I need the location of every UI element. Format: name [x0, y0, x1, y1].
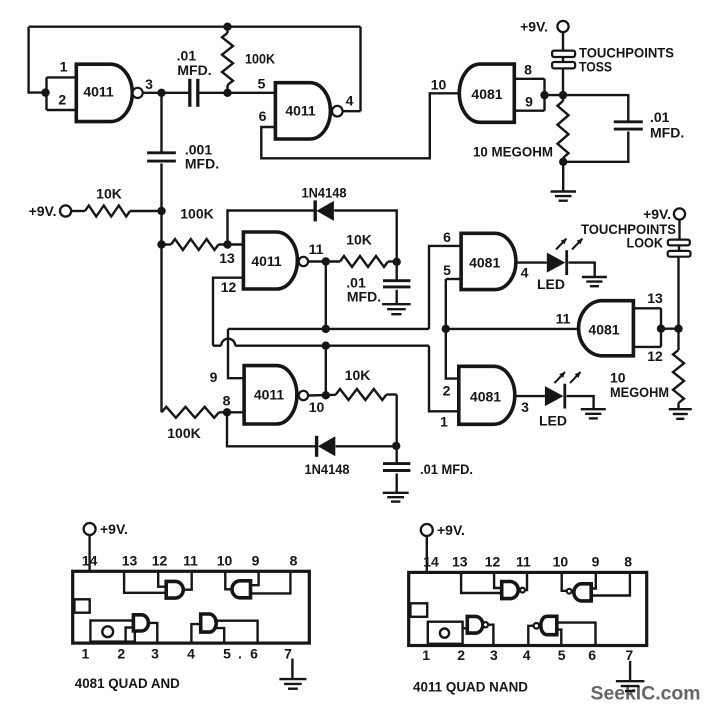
ground LED2	[581, 409, 606, 418]
watermark SeekIC.com	[591, 683, 701, 705]
node R6/D2 junction pin 8	[223, 408, 231, 416]
svg-text:1N4148: 1N4148	[302, 185, 347, 201]
svg-text:1: 1	[422, 647, 430, 663]
4011 notch marker	[410, 603, 427, 617]
wire C1 to U1b pin 5	[198, 92, 275, 94]
svg-text:12: 12	[221, 279, 237, 295]
ground toss node	[551, 162, 577, 201]
svg-text:+9V.: +9V.	[643, 206, 671, 222]
wire +9V to pin 14 4011	[426, 536, 428, 572]
ground C4	[382, 304, 411, 314]
node W1 junction at pin 11 drop	[322, 325, 330, 333]
wire U1c pin 11 output	[308, 260, 340, 262]
node W3 junction at pin 10 riser	[322, 342, 330, 350]
wire main timing rail down left side	[160, 164, 162, 413]
svg-text:5: 5	[443, 262, 451, 278]
AND gate U2a 4081 pins 8,9 out 10 (mirrored)	[459, 62, 533, 123]
pin numbers bottom 4081 IC	[82, 645, 293, 661]
svg-text:8: 8	[290, 553, 298, 569]
node C1/R2 junction	[223, 89, 231, 97]
wire +9V to pin 14 4081	[88, 535, 90, 571]
wire U2a pins 8,9 bracket to touch node	[514, 79, 563, 111]
wire U1a pin 3 output to C1	[143, 92, 190, 94]
svg-text:+9V.: +9V.	[437, 522, 465, 538]
svg-text:10K: 10K	[345, 367, 371, 383]
wire U1a input bracket pins 1-2	[47, 77, 77, 110]
svg-text:14: 14	[423, 554, 439, 570]
wire U1c pin 12 from latch wire W3	[213, 278, 243, 346]
svg-text:4011: 4011	[254, 387, 285, 403]
resistor R8 10 MEGOHM look	[610, 329, 684, 409]
resistor R7 10K from pin 10	[336, 367, 397, 400]
resistor R5 10 MEGOHM toss	[473, 95, 569, 162]
svg-text:100K: 100K	[167, 425, 200, 441]
svg-text:3: 3	[151, 645, 159, 661]
power terminal +9V look	[643, 206, 685, 222]
svg-text:4011: 4011	[251, 253, 282, 269]
wire look plates down to bracket node	[677, 257, 679, 329]
wire W3 U1d pin10 node to U1c pin12 and U2f pin 1 (net look-out)	[213, 339, 459, 412]
svg-text:4: 4	[521, 265, 529, 281]
svg-text:11: 11	[516, 554, 531, 570]
svg-text:.01: .01	[650, 109, 670, 125]
wire LED2 cathode to ground	[567, 396, 594, 409]
svg-text:1: 1	[60, 59, 68, 75]
diode D2 1N4148 from pin8 node to R7/C5 node	[227, 412, 397, 477]
capacitor C1 .01 MFD coupling	[177, 48, 212, 107]
ground R8	[669, 409, 692, 419]
svg-text:9: 9	[525, 94, 533, 110]
svg-text:8: 8	[524, 62, 532, 78]
4011 internal gate D bottom-right mirrored NAND	[528, 616, 595, 645]
svg-text:2: 2	[117, 645, 125, 661]
svg-text:4081: 4081	[588, 322, 619, 338]
resistor R3 100K to U1c pin 13	[162, 206, 244, 251]
NAND gate U1d 4011 pins 9,8 out 10	[210, 366, 325, 424]
IC body 4081	[73, 571, 310, 643]
svg-text:10: 10	[431, 77, 447, 93]
node bracket tap junctions	[540, 91, 567, 99]
svg-text:13: 13	[219, 250, 235, 266]
resistor R2 100K vertical feedback	[222, 27, 275, 93]
svg-text:SeekIC.com: SeekIC.com	[591, 683, 701, 705]
svg-text:4011: 4011	[83, 84, 114, 100]
svg-text:+9V.: +9V.	[100, 521, 128, 537]
NAND gate U1c 4011 pins 13,12 out 11	[219, 232, 323, 295]
svg-text:4: 4	[346, 93, 354, 109]
wire U2b pin 4 output to LED1	[516, 261, 547, 263]
svg-text:2: 2	[58, 92, 66, 108]
label 4081 QUAD AND	[75, 675, 180, 691]
svg-text:1: 1	[82, 645, 90, 661]
svg-text:LED: LED	[539, 413, 567, 429]
svg-text:9: 9	[252, 553, 260, 569]
svg-text:1: 1	[440, 413, 448, 429]
ground pin 7 4011	[616, 661, 645, 691]
wire +9V to look plates	[678, 220, 680, 240]
node pin3 junction	[157, 89, 165, 97]
svg-text:MFD.: MFD.	[650, 125, 684, 141]
resistor R4 10K from pin 11	[340, 232, 397, 268]
svg-text:4011 QUAD NAND: 4011 QUAD NAND	[413, 679, 528, 695]
node D2/C5 junction	[392, 442, 400, 450]
svg-text:9: 9	[592, 554, 600, 570]
svg-text:14: 14	[82, 553, 98, 569]
svg-text:6: 6	[259, 108, 267, 124]
node R3/D1 junction pin 13	[223, 240, 231, 248]
ground LED1	[582, 277, 607, 286]
svg-text:3: 3	[521, 399, 529, 415]
svg-text:10: 10	[217, 553, 233, 569]
4081 internal gate D bottom-right	[191, 614, 257, 643]
ground pin 7 4081	[279, 659, 306, 689]
svg-text:4081: 4081	[469, 254, 500, 270]
node 100K junction on rail	[157, 240, 165, 248]
node W2 junction pins 5/2 riser	[442, 325, 450, 333]
svg-text:11: 11	[183, 553, 198, 569]
ground C5	[383, 493, 409, 502]
svg-text:10: 10	[309, 399, 325, 415]
power terminal +9V toss	[520, 19, 569, 35]
diode D1 1N4148 from pin13 node to R4/C4 node	[228, 185, 397, 262]
svg-text:4: 4	[523, 647, 531, 663]
svg-text:MFD.: MFD.	[347, 289, 381, 305]
4011 internal gate A top-left NAND	[461, 572, 527, 598]
svg-text:9: 9	[210, 369, 218, 385]
svg-text:10: 10	[553, 554, 569, 570]
IC body 4011	[409, 572, 647, 645]
svg-text:3: 3	[490, 647, 498, 663]
4081 internal gate B top-right mirrored	[225, 571, 290, 598]
node R2 top junction on feedback wire	[223, 23, 231, 31]
wire W1 U1c pin11 node to U2b pin 6 (net toss-out)	[228, 246, 461, 378]
svg-text:12: 12	[485, 554, 501, 570]
svg-text:1N4148: 1N4148	[305, 461, 350, 477]
node pin 10 output junction	[322, 391, 330, 399]
svg-text:MFD.: MFD.	[185, 156, 219, 172]
node R5 bottom junction	[559, 158, 567, 166]
node R4/D1/C4 junction	[393, 258, 401, 266]
svg-text:2: 2	[457, 647, 465, 663]
wire touch plates down to node	[562, 68, 564, 95]
wire R7 down to D2/C5 node	[396, 395, 398, 464]
svg-text:MEGOHM: MEGOHM	[610, 384, 669, 400]
4081 internal gate C bottom-left with pin1 box	[90, 615, 157, 643]
svg-text:12: 12	[647, 348, 663, 364]
svg-text:6: 6	[588, 647, 596, 663]
svg-text:10K: 10K	[96, 186, 122, 202]
svg-text:4011: 4011	[285, 102, 316, 118]
wire W2 U2e output 11 to U2b pin5 / U2f pin2	[446, 279, 578, 379]
svg-text:LOOK: LOOK	[627, 235, 664, 251]
LED LED2 look indicator	[539, 372, 581, 429]
svg-text:7: 7	[625, 647, 633, 663]
capacitor C5 .01 MFD one-shot 2	[383, 461, 473, 492]
4081 notch marker	[74, 599, 89, 612]
wire feedback loop top from U2b output to U1a input	[29, 27, 361, 112]
svg-text:8: 8	[223, 393, 231, 409]
node R1 junction on rail	[157, 207, 165, 215]
svg-text:+9V.: +9V.	[520, 19, 548, 35]
svg-text:4081 QUAD AND: 4081 QUAD AND	[75, 675, 180, 691]
AND gate U2b 4081 pins 6,5 out 4	[443, 229, 529, 290]
node look bracket junctions	[657, 325, 683, 333]
svg-text:11: 11	[309, 241, 324, 257]
svg-text:100K: 100K	[245, 51, 275, 67]
svg-text:6: 6	[443, 229, 451, 245]
NAND gate U1a 4011 pins 1,2 out 3	[58, 59, 153, 122]
pin numbers top 4011 IC	[423, 554, 632, 570]
svg-text:10K: 10K	[346, 232, 372, 248]
svg-text:+9V.: +9V.	[29, 203, 57, 219]
svg-text:5: 5	[223, 645, 231, 661]
svg-text:2: 2	[443, 383, 451, 399]
svg-text:.: .	[238, 645, 242, 661]
node junction at U1a input bracket	[41, 88, 49, 96]
svg-text:4: 4	[187, 645, 195, 661]
svg-text:3: 3	[145, 76, 153, 92]
wire +9V to touch plate	[562, 32, 564, 50]
svg-text:6: 6	[250, 645, 258, 661]
svg-text:100K: 100K	[180, 206, 213, 222]
NAND gate U1b 4011 pins 5,6 out 4	[258, 75, 354, 139]
touchpoints LOOK plates	[581, 221, 691, 257]
4081 internal gate A top-left	[124, 571, 192, 598]
AND gate U2f 4081 pins 2,1 out 3	[440, 366, 529, 429]
svg-text:8: 8	[624, 554, 632, 570]
svg-text:.01 MFD.: .01 MFD.	[420, 461, 473, 477]
svg-text:MFD.: MFD.	[177, 62, 211, 78]
AND gate U2e 4081 pins 13,12 out 11 (mirrored)	[579, 290, 663, 364]
pin numbers top 4081 IC	[82, 553, 298, 569]
pin numbers bottom 4011 IC	[422, 647, 633, 663]
capacitor C4 .01 MFD one-shot	[346, 262, 410, 305]
power terminal +9V 4011 IC	[421, 522, 465, 538]
wire U1b pin 6 from U2a output 10	[261, 77, 459, 159]
capacitor C2 .001 MFD to timing node	[147, 93, 219, 172]
svg-text:13: 13	[452, 554, 468, 570]
svg-text:11: 11	[556, 311, 571, 327]
svg-text:LED: LED	[537, 276, 565, 292]
power terminal +9V left	[29, 203, 72, 219]
resistor R1 10K from +9V	[71, 186, 161, 217]
svg-text:13: 13	[647, 290, 663, 306]
svg-text:5: 5	[558, 647, 566, 663]
label 4011 QUAD NAND	[413, 679, 528, 695]
wire U2f pin 3 output to LED2	[515, 395, 545, 397]
svg-text:5: 5	[258, 75, 266, 91]
svg-text:4081: 4081	[471, 86, 502, 102]
svg-text:4081: 4081	[470, 389, 501, 405]
capacitor C3 .01 MFD toss	[563, 95, 684, 162]
touchpoints TOSS plates	[552, 45, 674, 75]
node pin 11 output junction	[322, 257, 330, 265]
svg-text:13: 13	[122, 553, 138, 569]
wire U1d pin 10 output	[308, 394, 336, 397]
wire U2e pins 13,12 bracket to look node	[633, 308, 678, 347]
LED LED1 toss indicator	[537, 239, 583, 293]
wire LED1 cathode to ground	[569, 263, 595, 277]
power terminal +9V 4081 IC	[84, 521, 128, 537]
svg-text:10 MEGOHM: 10 MEGOHM	[473, 144, 553, 160]
4011 internal gate B top-right mirrored NAND	[562, 572, 630, 601]
svg-text:TOSS: TOSS	[579, 59, 612, 75]
4011 internal gate C bottom-left NAND with pin1 box	[428, 616, 494, 645]
svg-text:12: 12	[152, 553, 168, 569]
wire U1b pin 4 output to feedback corner	[343, 110, 361, 112]
resistor R6 100K to U1d pin 8	[162, 407, 245, 441]
svg-text:7: 7	[284, 645, 292, 661]
